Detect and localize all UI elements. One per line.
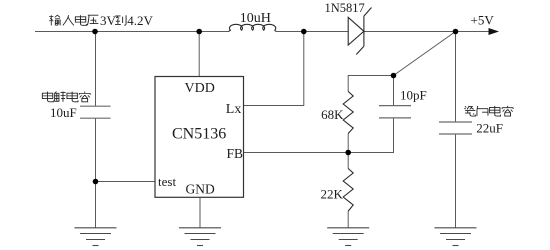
ground (left cap)	[75, 228, 117, 246]
wire FB pin	[244, 152, 349, 154]
wire left cap branch lower to ground	[95, 118, 97, 228]
ground (right cap)	[435, 228, 477, 246]
svg-text:FB: FB	[227, 146, 244, 161]
ground (IC GND)	[179, 228, 221, 246]
wire 68K bottom	[347, 134, 349, 169]
op IC U1 CN5136 box	[155, 77, 244, 198]
node VDD junction	[196, 29, 202, 35]
svg-text:VDD: VDD	[185, 81, 215, 96]
node +5V junction	[453, 29, 459, 35]
capacitor C1 10uF plates	[80, 106, 111, 118]
resistor R2 22K	[343, 169, 353, 212]
wire top rail left	[35, 31, 229, 33]
svg-text:4.2V: 4.2V	[127, 13, 153, 28]
label 电解电容	[42, 92, 90, 102]
wire test pin	[96, 181, 156, 183]
label 输入电压3V到4.2V	[49, 13, 153, 28]
svg-text:10uH: 10uH	[240, 11, 271, 26]
capacitor C2 10pF plates	[379, 106, 411, 118]
svg-text:10pF: 10pF	[400, 88, 427, 103]
wire right cap lower to ground	[455, 134, 457, 228]
svg-text:test: test	[158, 174, 176, 189]
svg-text:68K: 68K	[321, 107, 344, 122]
wire Lx pin	[244, 32, 304, 106]
ground (22K)	[327, 228, 369, 246]
resistor R1 68K	[343, 92, 353, 134]
node test junction	[93, 179, 99, 185]
svg-text:+5V: +5V	[471, 13, 495, 28]
node input/cap junction	[92, 29, 98, 35]
svg-text:1N5817: 1N5817	[325, 1, 365, 15]
svg-text:22K: 22K	[321, 187, 344, 202]
wire 10pF upper	[393, 76, 395, 106]
node Lx junction	[301, 29, 307, 35]
node 10pF top junction	[391, 73, 397, 79]
svg-text:10uF: 10uF	[50, 105, 77, 120]
wire 22K bottom to ground	[347, 211, 349, 228]
wire 68K top	[348, 76, 393, 92]
svg-text:CN5136: CN5136	[172, 126, 226, 143]
wire inductor to diode	[276, 31, 348, 33]
wire 10pF lower	[348, 118, 393, 153]
label 瓷片电容	[464, 106, 513, 116]
node FB junction	[345, 150, 351, 156]
wire GND pin	[199, 197, 201, 228]
+5V output arrowhead	[489, 28, 500, 35]
svg-text:22uF: 22uF	[476, 121, 503, 136]
svg-text:3V: 3V	[100, 13, 117, 28]
svg-text:GND: GND	[186, 182, 215, 197]
svg-text:Lx: Lx	[226, 102, 242, 117]
wire diode to +5V arrow	[364, 31, 490, 33]
wire left cap branch upper	[95, 32, 97, 107]
wire VDD pin	[198, 32, 200, 77]
wire right cap upper	[455, 32, 457, 123]
wire diagonal 5V to 10pF node	[394, 32, 456, 76]
capacitor C3 22uF plates	[439, 122, 472, 134]
inductor L1 10uH	[229, 24, 277, 31]
diode D1 1N5817	[348, 8, 371, 55]
